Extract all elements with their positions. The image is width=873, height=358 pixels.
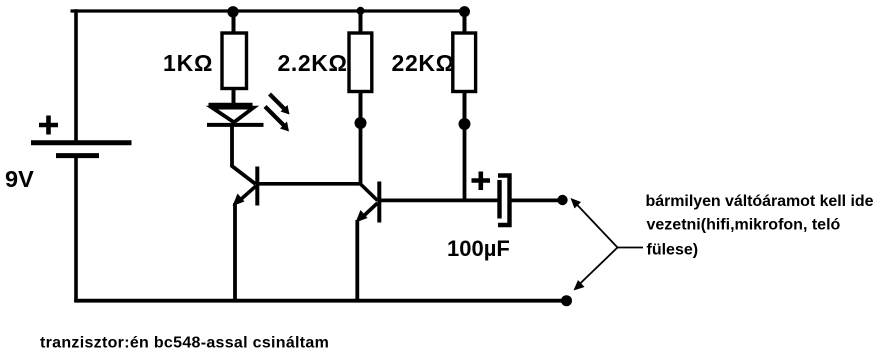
capacitor C1 positive plate (497, 180, 501, 219)
transistor Q2 emitter with arrow (356, 203, 378, 223)
wire capacitor to output terminal (512, 198, 561, 202)
LED D1 cathode bar (207, 123, 264, 127)
svg-text:2.2KΩ: 2.2KΩ (278, 50, 348, 76)
svg-text:22KΩ: 22KΩ (392, 50, 455, 76)
node junction dot top of R3 (459, 6, 470, 17)
transistor Q1 base bar (255, 167, 259, 206)
wire battery negative lead (74, 158, 78, 302)
capacitor C1 negative plate bracket (498, 176, 510, 226)
node junction dot top of R2 (357, 7, 365, 15)
resistor R2 (349, 33, 372, 92)
wire node B1 down to Q2 base (359, 123, 363, 185)
svg-text:tranzisztor:én bc548-assal csi: tranzisztor:én bc548-assal csináltam (40, 335, 329, 352)
wire R1 top lead (232, 11, 236, 34)
wire R1 bottom lead (232, 88, 236, 105)
transistor Q2 base bar (377, 182, 381, 223)
wire R2 top lead (359, 11, 363, 34)
capacitor C1 plus sign (472, 172, 491, 191)
svg-text:fülese): fülese) (647, 241, 699, 258)
transistor Q1 emitter with arrow (233, 186, 257, 206)
LED D1 light arrow 2 (265, 107, 289, 132)
annotation arrow to bottom terminal (574, 248, 618, 291)
wire Q1 emitter to ground rail (233, 203, 237, 301)
node junction dot top of R1 (227, 6, 238, 17)
wire R2 bottom lead (359, 91, 363, 118)
node output terminal bottom (561, 295, 572, 306)
battery BT1 plus sign (39, 116, 58, 135)
wire R3 bottom lead (463, 91, 467, 119)
wire LED cathode to Q1 collector (232, 124, 256, 184)
wire R3 node down to collector line (463, 124, 467, 201)
svg-text:1KΩ: 1KΩ (163, 50, 213, 76)
resistor R1 (222, 33, 247, 89)
node output terminal top (557, 195, 567, 205)
wire Q2 emitter to ground rail (355, 220, 359, 301)
wire Q1 base lead to node B1 (258, 182, 361, 186)
wire battery positive lead (74, 9, 78, 142)
svg-text:9V: 9V (5, 166, 34, 192)
battery BT1 negative plate (56, 153, 99, 158)
wire top supply rail (71, 9, 467, 12)
transistor Q2 base diagonal (360, 184, 378, 201)
svg-text:vezetni(hifi,mikrofon, teló: vezetni(hifi,mikrofon, teló (647, 217, 841, 234)
svg-text:bármilyen váltóáramot kell ide: bármilyen váltóáramot kell ide (646, 193, 873, 210)
LED D1 triangle (212, 108, 254, 123)
annotation arrow to top terminal (571, 198, 618, 248)
wire Q2 collector to capacitor (380, 198, 498, 202)
wire R3 top lead (463, 11, 467, 34)
resistor R3 (453, 33, 476, 92)
battery BT1 positive plate (31, 140, 132, 145)
svg-text:100µF: 100µF (447, 236, 510, 261)
annotation pointer tail (618, 247, 644, 249)
LED D1 anode bar (209, 103, 253, 107)
node junction dot below R3 (459, 118, 471, 130)
wire bottom ground rail (74, 299, 564, 303)
LED D1 light arrow 1 (270, 94, 290, 115)
node junction dot below R2 (355, 117, 367, 129)
